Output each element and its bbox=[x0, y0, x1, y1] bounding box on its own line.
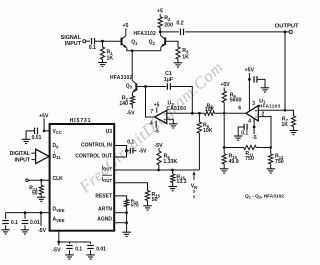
svg-text:0.01: 0.01 bbox=[96, 246, 106, 252]
svg-text:0.1: 0.1 bbox=[89, 45, 96, 51]
wire node to output cap 0.2 bbox=[160, 31, 179, 33]
svg-text:-5V: -5V bbox=[126, 111, 135, 117]
ground (U1 V+ bypass) bbox=[261, 88, 270, 92]
resistor R4 200 bbox=[158, 14, 173, 32]
svg-text:7: 7 bbox=[150, 109, 153, 115]
ground (R16) bbox=[168, 187, 177, 191]
ground (R10) bbox=[220, 169, 229, 173]
wire R8/R9 node down to attenuator bbox=[223, 113, 225, 147]
node R11/R12/feedback junction bbox=[269, 146, 272, 149]
resistor R2 140 bbox=[119, 96, 134, 109]
wire VCC bypass to ground bbox=[26, 131, 34, 139]
svg-text:6: 6 bbox=[238, 105, 241, 111]
svg-text:U3: U3 bbox=[106, 129, 113, 135]
wire Q3 base line to C1 bbox=[137, 86, 166, 88]
wire OUTPUT rail down right side bbox=[284, 32, 286, 110]
ground (AVEE 0.1) bbox=[65, 255, 74, 259]
svg-text:13.3: 13.3 bbox=[176, 179, 186, 185]
svg-text:CA5160: CA5160 bbox=[166, 106, 186, 112]
node U1 V- bypass junction bbox=[253, 126, 256, 129]
wire IOUT rail bbox=[114, 169, 199, 171]
svg-text:Q1 - Q3, HFA3102: Q1 - Q3, HFA3102 bbox=[245, 194, 284, 200]
wire AVEE stub bbox=[58, 231, 60, 242]
ground (U1 V- bypass) bbox=[234, 136, 243, 140]
svg-text:+5V: +5V bbox=[245, 68, 255, 74]
capacitor 0.1 (control bypass) bbox=[127, 140, 137, 154]
svg-text:750: 750 bbox=[275, 159, 284, 165]
capacitor 0.1 (AVEE bypass) bbox=[66, 242, 82, 255]
ground (R15) bbox=[143, 206, 152, 210]
resistor R1 1K bbox=[100, 41, 113, 62]
ground (DVEE 0.01) bbox=[21, 230, 30, 234]
svg-text:RESET: RESET bbox=[95, 194, 112, 200]
svg-text:HFA1103: HFA1103 bbox=[259, 104, 281, 109]
ground (R12) bbox=[266, 169, 275, 173]
resistor R8 10K bbox=[205, 103, 215, 115]
capacitor 0.01 (VCC bypass) bbox=[32, 128, 42, 141]
ground (U2 + input) bbox=[169, 124, 178, 128]
wire U2 output to Q3 base node bbox=[146, 87, 155, 118]
svg-text:4: 4 bbox=[248, 119, 251, 125]
svg-text:-5V: -5V bbox=[139, 149, 147, 155]
wire IOUT-bar to R15 bbox=[114, 183, 147, 191]
capacitor 0.1 (input coupling) bbox=[89, 38, 96, 51]
svg-text:50: 50 bbox=[32, 190, 38, 196]
capacitor 0.1 (DVEE bypass) bbox=[2, 213, 18, 230]
svg-text:VCC: VCC bbox=[53, 129, 62, 135]
node Q3 base / U2 output junction bbox=[144, 85, 147, 88]
ground (AVEE 0.01) bbox=[86, 255, 95, 259]
svg-text:10K: 10K bbox=[203, 128, 213, 134]
node U1 bypass junction bbox=[248, 78, 251, 81]
svg-text:ARTN: ARTN bbox=[98, 207, 112, 213]
svg-text:R3: R3 bbox=[182, 48, 189, 54]
svg-text:DVEE: DVEE bbox=[53, 207, 65, 213]
svg-text:OUTPUT: OUTPUT bbox=[275, 23, 299, 29]
node U1 +in / OUTPUT rail / R7 bbox=[284, 109, 287, 112]
resistor R9 5600 bbox=[222, 88, 241, 114]
svg-text:1.33K: 1.33K bbox=[163, 159, 177, 165]
svg-text:-5V: -5V bbox=[154, 143, 163, 149]
wire U2 + input to ground bbox=[167, 119, 174, 124]
wire bypass cap to ground bbox=[257, 79, 265, 87]
pin 4 wire (U2 V-) bbox=[150, 121, 156, 129]
op-amp U1 HFA1103 bbox=[246, 98, 281, 121]
svg-text:0.01: 0.01 bbox=[30, 220, 40, 226]
svg-text:-5: -5 bbox=[252, 135, 257, 141]
svg-text:1K: 1K bbox=[281, 122, 288, 128]
svg-text:IOUT: IOUT bbox=[102, 165, 113, 171]
wire Q2 collector to R4 node bbox=[160, 32, 162, 36]
svg-text:0.1: 0.1 bbox=[127, 140, 134, 146]
svg-text:1K: 1K bbox=[107, 56, 114, 62]
wire U1 + input to OUTPUT rail bbox=[258, 109, 285, 111]
decorative watermark (not labelled further) bbox=[75, 57, 227, 197]
svg-text:0.2: 0.2 bbox=[176, 21, 183, 27]
svg-text:−: − bbox=[163, 111, 166, 116]
svg-text:0.1: 0.1 bbox=[11, 220, 18, 226]
resistor R16 13.3 bbox=[171, 170, 187, 187]
wire C1 to U2 inverting input line bbox=[170, 87, 192, 114]
wire AGND bbox=[114, 222, 126, 224]
node C1 junction bbox=[191, 112, 194, 115]
wire ARTN bbox=[114, 212, 126, 214]
resistor R13 50 bbox=[29, 180, 43, 197]
buffer digital input bbox=[31, 149, 49, 163]
pin 3 wire (U1 V+) bbox=[249, 73, 255, 111]
capacitor 0.1 (U1 V- bypass) bbox=[241, 124, 248, 137]
wire common emitter rail down to Q3 collector bbox=[131, 51, 133, 80]
capacitor 0.2 (output coupling) bbox=[176, 21, 183, 35]
svg-text:+: + bbox=[163, 117, 166, 122]
svg-text:INPUT: INPUT bbox=[14, 158, 30, 164]
svg-text:+5: +5 bbox=[123, 23, 129, 29]
node OUTPUT terminal bbox=[275, 23, 299, 33]
resistor R10 49.9 bbox=[222, 148, 239, 169]
ground (R13) bbox=[37, 197, 46, 201]
wire RESET to R14 bbox=[114, 196, 126, 200]
wire Q1 collector to +5 bbox=[125, 29, 127, 36]
svg-text:0.01: 0.01 bbox=[32, 135, 42, 141]
wire Q2 emitter to common rail bbox=[160, 47, 162, 51]
resistor R5 1.33K bbox=[157, 148, 178, 170]
svg-text:-5V: -5V bbox=[52, 248, 61, 254]
svg-text:+5: +5 bbox=[154, 102, 160, 108]
capacitor 0.01 (DVEE bypass) bbox=[22, 213, 40, 230]
node CLK / R13 junction bbox=[40, 179, 43, 182]
svg-text:200: 200 bbox=[164, 22, 173, 28]
svg-text:140: 140 bbox=[119, 101, 128, 107]
svg-text:49.9: 49.9 bbox=[229, 159, 239, 165]
svg-text:R4: R4 bbox=[164, 16, 171, 22]
svg-text:+5: +5 bbox=[157, 9, 163, 15]
ground (ARTN/AGND/R14) bbox=[122, 232, 131, 236]
wire AVEE rail bbox=[59, 241, 91, 243]
transistor Q3 HFA3102 bbox=[126, 83, 137, 93]
resistor R3 1K bbox=[176, 47, 189, 63]
node R4 / Q2 collector bbox=[159, 31, 162, 34]
ground (VCC bypass) bbox=[22, 139, 31, 143]
capacitor 0.01 (U1 V+ bypass) bbox=[254, 76, 257, 83]
svg-text:0.1: 0.1 bbox=[75, 246, 82, 252]
transistor Q1 HFA3102 bbox=[122, 36, 139, 49]
wire +5V to VCC pin bbox=[43, 119, 45, 131]
wire bypass cap to ground bbox=[238, 127, 244, 136]
node common emitter junction to Q3 bbox=[131, 49, 134, 52]
ground (R1) bbox=[98, 63, 107, 67]
node DVEE cap1 junction bbox=[24, 211, 27, 214]
svg-text:50: 50 bbox=[152, 197, 158, 203]
pin 4 wire (U1 V-) bbox=[248, 119, 254, 134]
svg-text:IOUT: IOUT bbox=[102, 177, 113, 183]
svg-text:INPUT: INPUT bbox=[65, 41, 82, 47]
svg-text:AVEE: AVEE bbox=[53, 217, 65, 223]
svg-text:Q3: Q3 bbox=[126, 83, 133, 89]
pin 2 wire (U1 - input feedback) bbox=[258, 111, 271, 147]
node OUTPUT junction bbox=[284, 31, 287, 34]
svg-text:750: 750 bbox=[245, 156, 254, 162]
wire C-in to Q1 base, junction at R1 bbox=[95, 40, 122, 42]
-5V supply (AVEE) bbox=[52, 242, 61, 254]
node DVEE -5V junction bbox=[40, 211, 43, 214]
svg-text:2: 2 bbox=[262, 111, 265, 117]
wire node to U1 output bbox=[224, 112, 246, 114]
svg-text:1K: 1K bbox=[182, 55, 189, 61]
wire Q2 base to R3 bbox=[166, 41, 178, 47]
capacitor C1 1uF bbox=[164, 71, 173, 90]
node CONTROL IN/OUT junction bbox=[125, 149, 128, 152]
svg-text:AGND: AGND bbox=[97, 217, 112, 223]
op-amp U2 CA5160 bbox=[155, 101, 187, 124]
wire 0.2 cap to OUTPUT bbox=[185, 31, 285, 33]
node R10/R11 junction bbox=[223, 146, 226, 149]
node R8/R9/attenuator junction bbox=[223, 112, 226, 115]
svg-text:+: + bbox=[255, 109, 258, 114]
wire DVEE rail bbox=[6, 212, 50, 214]
node VCC bypass junction bbox=[43, 130, 46, 133]
ground (R3) bbox=[174, 63, 183, 67]
pin label IOUT-bar bbox=[102, 175, 113, 183]
svg-text:10K: 10K bbox=[205, 107, 215, 113]
wire attenuator rail right segment bbox=[256, 147, 271, 149]
svg-text:5600: 5600 bbox=[230, 98, 242, 104]
pin 7 wire (U2 V+) bbox=[150, 108, 156, 116]
svg-text:+5V: +5V bbox=[220, 82, 230, 88]
svg-text:+5V: +5V bbox=[39, 113, 49, 119]
node R6 junction bbox=[198, 112, 201, 115]
wire R14 to ground rail bbox=[126, 206, 128, 232]
svg-text:CONTROL IN: CONTROL IN bbox=[81, 143, 112, 149]
svg-text:VR: VR bbox=[191, 184, 198, 190]
svg-text:-5V: -5V bbox=[38, 228, 47, 234]
DAC U3 HI5731 bbox=[50, 118, 115, 231]
wire R8 to R9 node bbox=[215, 112, 225, 114]
resistor R14 976 bbox=[125, 198, 140, 207]
transistor Q2 HFA3102 bbox=[149, 36, 166, 48]
resistor R11 750 bbox=[244, 145, 257, 161]
wire Q1 emitter to common emitter rail bbox=[127, 48, 161, 51]
node R5 junction bbox=[157, 169, 160, 172]
node CLK terminal bbox=[26, 179, 50, 182]
resistor R6 10K bbox=[197, 113, 212, 170]
svg-text:D11: D11 bbox=[53, 154, 62, 160]
resistor R15 50 bbox=[145, 183, 160, 206]
resistor R12 750 bbox=[269, 148, 284, 169]
node R16 junction bbox=[171, 169, 174, 172]
wire Q3 emitter to R2 bbox=[131, 93, 133, 96]
svg-text:CLK: CLK bbox=[53, 176, 64, 182]
svg-text:DIGITAL: DIGITAL bbox=[10, 151, 31, 157]
resistor R7 1K bbox=[281, 116, 295, 131]
wire OUTPUT rail to R7 bbox=[285, 110, 294, 116]
node SIGNAL INPUT bbox=[61, 35, 86, 47]
wire attenuator rail left segment bbox=[224, 147, 244, 149]
svg-text:−: − bbox=[255, 115, 258, 120]
svg-text:976: 976 bbox=[131, 203, 139, 208]
-5V supply (DVEE) bbox=[38, 213, 47, 234]
svg-text:HFA3102: HFA3102 bbox=[134, 31, 157, 37]
svg-text:HFA3102: HFA3102 bbox=[110, 75, 133, 81]
svg-text:Q1: Q1 bbox=[131, 40, 138, 46]
ground (DVEE 0.1) bbox=[1, 230, 10, 234]
capacitor 0.01 (AVEE bypass) bbox=[87, 242, 106, 255]
svg-text:HI5731: HI5731 bbox=[70, 118, 92, 124]
wire signal input to C-in bbox=[86, 40, 90, 42]
wire U2 - input line to R8 bbox=[167, 112, 205, 114]
svg-text:1μF: 1μF bbox=[164, 77, 173, 83]
svg-text:Q2: Q2 bbox=[149, 40, 156, 46]
svg-text:4: 4 bbox=[150, 121, 153, 127]
svg-text:3: 3 bbox=[252, 101, 255, 107]
ground (R7) bbox=[289, 131, 298, 135]
svg-text:CONTROL OUT: CONTROL OUT bbox=[75, 153, 112, 159]
svg-text:-5: -5 bbox=[154, 129, 159, 135]
node VR reference arrow bbox=[191, 171, 198, 199]
wire CONTROL IN to bypass node bbox=[114, 146, 126, 158]
